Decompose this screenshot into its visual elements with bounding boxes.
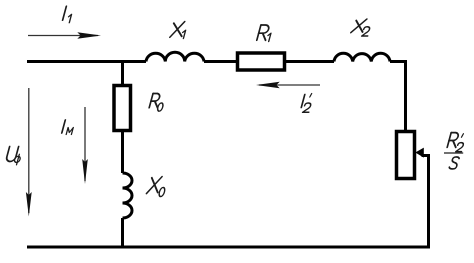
current arrow I_M bbox=[84, 107, 86, 181]
wire top-left horizontal bbox=[27, 60, 146, 63]
resistor R1 bbox=[238, 53, 285, 70]
wire X2 to right corner bbox=[390, 60, 405, 63]
inductor X1 bbox=[146, 52, 204, 61]
label R1 bbox=[257, 25, 270, 40]
wire R0 to X0 bbox=[121, 131, 124, 173]
inductor X0 bbox=[123, 173, 133, 218]
resistor R2/s bbox=[397, 132, 415, 179]
current arrow I1 bbox=[28, 35, 98, 37]
label R2'/s fraction bbox=[447, 133, 460, 148]
label X1 bbox=[170, 22, 186, 38]
wire right vertical down to R2 box bbox=[404, 60, 407, 131]
inductor X2 bbox=[334, 53, 390, 61]
wire node to R0 bbox=[121, 62, 124, 86]
label X0 bbox=[147, 177, 163, 194]
wire X0 to bottom bbox=[121, 218, 124, 248]
current arrow I2' bbox=[259, 84, 320, 86]
wire R1 to X2 bbox=[284, 60, 334, 63]
wire R2 tap riser bbox=[422, 156, 429, 249]
resistor R0 bbox=[114, 86, 131, 131]
label I1 bbox=[63, 6, 67, 20]
label X2 bbox=[351, 19, 367, 33]
wire X1 to R1 bbox=[204, 60, 236, 63]
voltage arrow U_f bbox=[28, 88, 30, 213]
label U_f bbox=[6, 147, 19, 162]
wire bottom horizontal bbox=[27, 246, 430, 249]
label I_M bbox=[62, 120, 65, 133]
label R0 bbox=[149, 94, 161, 108]
arrowhead of R2 tap (variable resistor arrow) bbox=[415, 148, 424, 158]
label I2' bbox=[301, 95, 304, 108]
